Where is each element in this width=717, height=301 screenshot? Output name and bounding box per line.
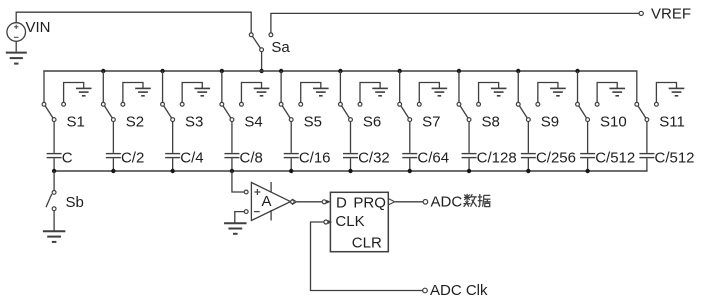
- svg-text:S6: S6: [363, 114, 381, 131]
- switch S6: [339, 102, 353, 121]
- svg-text:VIN: VIN: [26, 19, 51, 36]
- label S1: [67, 114, 85, 131]
- svg-text:C/8: C/8: [240, 149, 263, 166]
- junction bottom bus at C: [52, 169, 56, 173]
- junction top bus at S5 branch: [279, 69, 283, 73]
- label C/64 (cell 7): [417, 149, 449, 166]
- svg-text:S8: S8: [481, 114, 499, 131]
- svg-text:S7: S7: [422, 114, 440, 131]
- ground (S8 open contact): [491, 88, 507, 95]
- svg-text:CLR: CLR: [352, 234, 382, 251]
- label C/8 (cell 4): [240, 149, 263, 166]
- ground (S4 open contact): [254, 88, 270, 95]
- bottom bus (capacitor common plate): [53, 170, 647, 172]
- label Sa: [271, 39, 290, 56]
- source VIN (circle with + and -): [7, 23, 26, 52]
- wire capacitor C/512 to bottom bus: [646, 158, 648, 171]
- ground (Sb): [43, 231, 66, 242]
- label ADC Clk: [430, 282, 488, 299]
- junction bottom bus at C/32: [348, 169, 352, 173]
- wire S6 ground contact stub: [358, 83, 380, 107]
- capacitor C/2 (cell 2): [106, 154, 121, 158]
- wire top bus to S10 top contact: [577, 71, 579, 102]
- junction top bus at S9 branch: [516, 69, 520, 73]
- wire Sb to ground: [53, 211, 55, 232]
- svg-text:S3: S3: [185, 114, 203, 131]
- wire capacitor C/8 to bottom bus: [231, 158, 233, 171]
- switch S8: [457, 102, 471, 121]
- junction bottom bus at C/2: [111, 169, 115, 173]
- wire op-amp inverting input to ground: [235, 212, 245, 224]
- label C/512 (cell 10): [595, 149, 635, 166]
- ground (VIN source): [6, 53, 27, 64]
- junction top bus at S6 branch: [338, 69, 342, 73]
- label S4: [244, 114, 262, 131]
- svg-text:S4: S4: [244, 114, 262, 131]
- wire capacitor C to bottom bus: [53, 158, 55, 171]
- wire top bus to S11 top contact: [636, 71, 638, 102]
- switch S5: [279, 102, 293, 121]
- wire VREF net: terminal to switch Sa right contact: [271, 13, 639, 32]
- pin label PR / output Q: [353, 195, 386, 212]
- capacitor C/64 (cell 7): [402, 154, 417, 158]
- wire S7 pole to capacitor C/64: [409, 122, 411, 153]
- wire S8 ground contact stub: [477, 83, 499, 107]
- ground (S2 open contact): [135, 88, 151, 95]
- junction bottom bus at C/16: [289, 169, 293, 173]
- switch S9: [516, 102, 530, 121]
- wire top bus to S3 top contact: [162, 71, 164, 102]
- wire top bus to S9 top contact: [517, 71, 519, 102]
- wire capacitor C/32 to bottom bus: [350, 158, 352, 171]
- label S8: [481, 114, 499, 131]
- wire S11 ground contact stub: [655, 83, 677, 107]
- pin label CLR: [352, 234, 382, 251]
- capacitor C/256 (cell 9): [521, 154, 536, 158]
- wire S4 ground contact stub: [240, 83, 262, 107]
- wire S2 ground contact stub: [121, 83, 143, 107]
- junction top bus at S4 branch: [220, 69, 224, 73]
- svg-text:S9: S9: [541, 114, 559, 131]
- wire S1 pole to capacitor C: [53, 122, 55, 153]
- wire S3 ground contact stub: [180, 83, 202, 107]
- svg-text:C/512: C/512: [595, 149, 635, 166]
- wire top bus to S8 top contact: [458, 71, 460, 102]
- wire ADC Clk terminal to flip-flop CLK input: [311, 220, 423, 291]
- ground (S11 open contact): [669, 88, 685, 95]
- svg-text:D: D: [336, 195, 347, 212]
- svg-text:C/256: C/256: [536, 149, 576, 166]
- wire Sa pole to top bus: [261, 52, 263, 71]
- svg-text:ADC: ADC: [431, 193, 463, 210]
- wire S9 ground contact stub: [536, 83, 558, 107]
- label S9: [541, 114, 559, 131]
- label S2: [126, 114, 144, 131]
- pin label CLK: [335, 213, 364, 230]
- wire capacitor C/128 to bottom bus: [468, 158, 470, 171]
- ground (op-amp inverting input): [224, 223, 247, 234]
- label C/256 (cell 9): [536, 149, 576, 166]
- svg-text:S1: S1: [67, 114, 85, 131]
- wire S5 pole to capacitor C/16: [290, 122, 292, 153]
- label C/512 (cell 11): [655, 149, 695, 166]
- switch Sa (SPDT between VIN and VREF, feeding top bus): [249, 33, 272, 52]
- label C/16 (cell 5): [299, 149, 331, 166]
- label C/128 (cell 8): [477, 149, 517, 166]
- op-amp A (comparator): [244, 182, 290, 221]
- junction top bus at S8 branch: [457, 69, 461, 73]
- junction bottom bus at C/4: [170, 169, 174, 173]
- junction bottom bus at C/64: [408, 169, 412, 173]
- label C/2 (cell 2): [121, 149, 144, 166]
- wire Q output to ADC data terminal: [389, 199, 428, 205]
- wire capacitor C/512 to bottom bus: [587, 158, 589, 171]
- ground (S1 open contact): [76, 88, 92, 95]
- wire S11 pole to capacitor C/512: [646, 122, 648, 153]
- label S5: [304, 114, 322, 131]
- svg-text:C/16: C/16: [299, 149, 331, 166]
- pin label D: [336, 195, 347, 212]
- switch S7: [398, 102, 412, 121]
- label C/32 (cell 6): [358, 149, 390, 166]
- wire top bus to S4 top contact: [221, 71, 223, 102]
- wire capacitor C/256 to bottom bus: [527, 158, 529, 171]
- svg-text:CLK: CLK: [335, 213, 364, 230]
- label VIN: [26, 19, 51, 36]
- label ADC数据 (ADC data): [431, 193, 463, 210]
- junction bottom bus at C/256: [526, 169, 530, 173]
- junction Sa / top bus: [259, 69, 263, 73]
- switch S3: [161, 102, 175, 121]
- junction bottom bus at C/512: [585, 169, 589, 173]
- svg-text:PRQ: PRQ: [353, 195, 386, 212]
- wire top bus to S6 top contact: [339, 71, 341, 102]
- switch S2: [101, 102, 115, 121]
- wire S9 pole to capacitor C/256: [527, 122, 529, 153]
- wire capacitor C/2 to bottom bus: [112, 158, 114, 171]
- svg-text:C/4: C/4: [180, 149, 203, 166]
- wire S6 pole to capacitor C/32: [350, 122, 352, 153]
- svg-text:S10: S10: [600, 114, 627, 131]
- capacitor C/512 (cell 10): [580, 154, 595, 158]
- label Sb: [66, 194, 84, 211]
- wire VIN net: source top to switch Sa left contact: [16, 12, 251, 33]
- svg-text:Sb: Sb: [66, 194, 84, 211]
- svg-text:A: A: [262, 193, 272, 210]
- capacitor C/16 (cell 5): [284, 154, 299, 158]
- wire bottom bus to Sb: [53, 171, 55, 191]
- wire S3 pole to capacitor C/4: [172, 122, 174, 153]
- ground (S9 open contact): [550, 88, 566, 95]
- svg-text:S11: S11: [659, 114, 685, 131]
- label S11: [659, 114, 685, 131]
- ground (S7 open contact): [432, 88, 448, 95]
- wire S10 pole to capacitor C/512: [587, 122, 589, 153]
- junction top bus at S2 branch: [101, 69, 105, 73]
- capacitor C/4 (cell 3): [165, 154, 180, 158]
- wire top bus to S5 top contact: [280, 71, 282, 102]
- terminal VREF (open circle): [639, 11, 643, 15]
- junction top bus at S7 branch: [397, 69, 401, 73]
- ground (S6 open contact): [372, 88, 388, 95]
- label 数 (hanzi): [464, 194, 477, 207]
- label S7: [422, 114, 440, 131]
- label S10: [600, 114, 627, 131]
- capacitor C/512 (cell 11): [639, 154, 654, 158]
- wire top bus to S2 top contact: [102, 71, 104, 102]
- junction bottom bus at C/128: [467, 169, 471, 173]
- capacitor C (cell 1): [47, 154, 62, 158]
- svg-text:C/128: C/128: [477, 149, 517, 166]
- label S6: [363, 114, 381, 131]
- top bus (common switch rail): [43, 70, 637, 72]
- wire S8 pole to capacitor C/128: [468, 122, 470, 153]
- wire capacitor C/16 to bottom bus: [290, 158, 292, 171]
- ground (S5 open contact): [313, 88, 329, 95]
- wire S1 ground contact stub: [62, 83, 84, 107]
- svg-text:C: C: [62, 149, 73, 166]
- svg-text:VREF: VREF: [651, 6, 691, 23]
- wire op-amp output to flip-flop D input: [291, 199, 331, 205]
- svg-text:C/32: C/32: [358, 149, 390, 166]
- junction top bus at S3 branch: [160, 69, 164, 73]
- wire capacitor C/4 to bottom bus: [172, 158, 174, 171]
- wire bottom bus tap to op-amp non-inverting input: [232, 171, 244, 192]
- capacitor C/32 (cell 6): [343, 154, 358, 158]
- wire S7 ground contact stub: [417, 83, 439, 107]
- switch S1: [42, 102, 56, 121]
- wire S2 pole to capacitor C/2: [112, 122, 114, 153]
- svg-text:C/512: C/512: [655, 149, 695, 166]
- terminal ADC Clk (open circle): [423, 288, 428, 293]
- switch S10: [576, 102, 590, 121]
- svg-text:S2: S2: [126, 114, 144, 131]
- switch S11: [635, 102, 649, 121]
- wire capacitor C/64 to bottom bus: [409, 158, 411, 171]
- capacitor C/8 (cell 4): [224, 154, 239, 158]
- wire top bus to S1 top contact: [43, 71, 45, 102]
- capacitor C/128 (cell 8): [462, 154, 477, 158]
- wire S4 pole to capacitor C/8: [231, 122, 233, 153]
- ground (S10 open contact): [609, 88, 625, 95]
- svg-text:C/64: C/64: [417, 149, 449, 166]
- junction top bus at S10 branch: [575, 69, 579, 73]
- label S3: [185, 114, 203, 131]
- flip-flop U1 (D flip-flop box): [330, 192, 388, 251]
- junction bottom bus at C/8: [230, 169, 234, 173]
- wire S10 ground contact stub: [595, 83, 617, 107]
- label C (cell 1): [62, 149, 73, 166]
- ground (S3 open contact): [194, 88, 210, 95]
- svg-text:Sa: Sa: [271, 39, 290, 56]
- label 据 (hanzi): [478, 194, 491, 207]
- label C/4 (cell 3): [180, 149, 203, 166]
- svg-text:ADC Clk: ADC Clk: [430, 282, 488, 299]
- svg-text:C/2: C/2: [121, 149, 144, 166]
- switch Sb (open, to ground): [46, 191, 56, 211]
- label A (comparator): [262, 193, 272, 210]
- wire top bus to S7 top contact: [399, 71, 401, 102]
- label VREF: [651, 6, 691, 23]
- switch S4: [220, 102, 234, 121]
- wire S5 ground contact stub: [299, 83, 321, 107]
- svg-text:S5: S5: [304, 114, 322, 131]
